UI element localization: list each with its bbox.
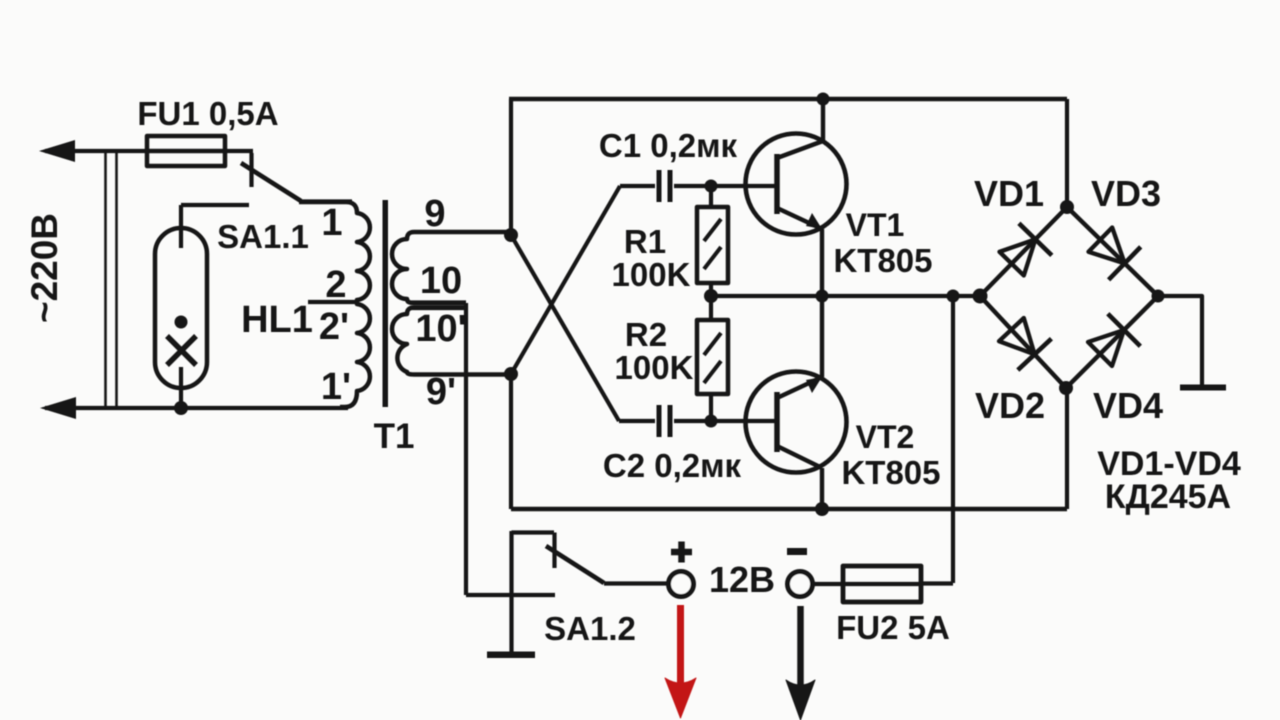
arrow mains top — [39, 140, 75, 162]
transformer tap 2-2' — [308, 300, 359, 304]
diode VD2 — [999, 318, 1035, 354]
fuse FU2 — [843, 566, 921, 602]
switch SA1.2 — [509, 531, 513, 654]
junction C2/R2 — [705, 415, 718, 428]
svg-text:FU1 0,5А: FU1 0,5А — [137, 95, 278, 132]
wire: bridge bottom vertical — [1065, 388, 1069, 509]
svg-text:FU2 5А: FU2 5А — [836, 609, 950, 646]
lamp HL1 — [155, 228, 207, 388]
arrow minus output (black) — [786, 606, 815, 720]
svg-text:VD2: VD2 — [975, 385, 1045, 426]
svg-text:VT1: VT1 — [846, 207, 905, 243]
svg-text:SA1.2: SA1.2 — [544, 610, 636, 647]
transistor VT2 — [746, 372, 847, 473]
capacitor C1 — [620, 184, 777, 188]
svg-text:100K: 100K — [615, 349, 694, 386]
junction HL1 bottom — [174, 401, 188, 415]
wire: crossover 9 to C2 — [511, 235, 619, 421]
junction VT1 collector/top rail — [817, 93, 830, 106]
mains double line — [106, 151, 117, 408]
junction C1/R1 — [705, 180, 718, 193]
junction VT2 collector/bottom rail — [815, 502, 829, 516]
diode VD3 — [1089, 228, 1125, 264]
diode bridge frame — [980, 207, 1158, 388]
terminal plus — [669, 572, 694, 597]
svg-text:VD4: VD4 — [1093, 385, 1163, 426]
svg-text:C1 0,2мк: C1 0,2мк — [599, 127, 738, 164]
node 9' junction — [504, 367, 518, 381]
svg-text:1: 1 — [321, 202, 342, 244]
transformer core — [383, 200, 389, 407]
svg-text:VD1: VD1 — [974, 173, 1044, 214]
svg-text:KT805: KT805 — [841, 454, 940, 491]
wire: center tap to switch — [466, 593, 555, 597]
bridge node dots — [1060, 200, 1074, 214]
diode VD4 — [1088, 330, 1124, 366]
svg-text:КД245А: КД245А — [1105, 478, 1231, 516]
svg-text:12В: 12В — [709, 559, 775, 600]
wire: node 9' vertical down — [509, 374, 513, 509]
node 9 junction — [504, 228, 518, 242]
transistor VT1 — [746, 134, 847, 235]
wire: minus to FU2 — [812, 582, 843, 586]
svg-text:9': 9' — [426, 371, 456, 413]
ground SA1.2 — [487, 652, 535, 659]
svg-text:T1: T1 — [374, 417, 415, 456]
ground right — [1180, 385, 1226, 391]
transformer secondary winding 9-10 — [392, 232, 511, 303]
arrow mains bottom — [40, 397, 76, 419]
svg-text:VT2: VT2 — [856, 419, 915, 455]
resistor R1 — [697, 207, 728, 283]
junction R1/R2 — [704, 289, 718, 303]
wire: center tap 10 — [410, 303, 466, 309]
wire: bottom mains line — [45, 406, 348, 410]
wire: top rail — [509, 97, 1067, 101]
transformer secondary winding 10'-9' — [392, 308, 511, 375]
wire: bridge output right — [1158, 296, 1202, 386]
svg-text:1': 1' — [321, 366, 351, 408]
svg-text:R2: R2 — [625, 316, 667, 353]
svg-text:100K: 100K — [612, 256, 691, 293]
svg-text:2: 2 — [325, 264, 346, 306]
wire: crossover 9' to C1 — [511, 186, 620, 374]
svg-text:10: 10 — [420, 260, 462, 302]
wire: FU2 branch vertical — [951, 296, 955, 583]
svg-text:VD3: VD3 — [1091, 173, 1161, 214]
switch SA1.1 — [249, 153, 253, 187]
wire: center tap vertical — [464, 303, 468, 595]
svg-text:~220В: ~220В — [24, 213, 65, 323]
wire: top mains line — [45, 149, 253, 153]
fuse FU1 — [147, 136, 225, 166]
arrow plus output (red) — [665, 605, 696, 718]
svg-text:9: 9 — [424, 193, 445, 235]
wire: bottom rail — [511, 507, 1067, 511]
svg-text:C2 0,2мк: C2 0,2мк — [603, 447, 742, 484]
wire: bridge top vertical — [1065, 99, 1069, 207]
terminal minus — [788, 572, 813, 597]
wire: middle rail — [710, 294, 980, 298]
transformer T1 primary winding — [299, 202, 370, 407]
junction VT1 emitter/mid rail — [816, 290, 829, 303]
wire: node 9 vertical — [509, 99, 513, 236]
svg-text:2': 2' — [319, 306, 349, 348]
junction FU2 branch — [947, 290, 960, 303]
svg-text:R1: R1 — [624, 223, 666, 260]
capacitor C2 — [619, 419, 777, 423]
svg-text:HL1: HL1 — [241, 299, 313, 341]
resistor R2 — [697, 320, 728, 394]
svg-text:SA1.1: SA1.1 — [217, 218, 309, 255]
svg-text:KT805: KT805 — [833, 242, 932, 279]
diode VD1 — [1000, 239, 1036, 275]
svg-text:10': 10' — [415, 308, 466, 350]
